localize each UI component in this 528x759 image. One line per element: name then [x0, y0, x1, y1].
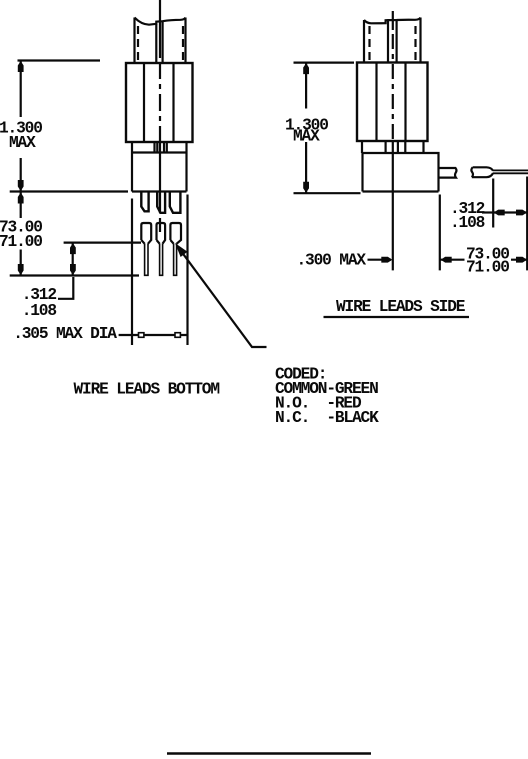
wire tab exit: [439, 168, 457, 178]
right view centerline: [392, 11, 394, 30]
wire lead 3 bare wire: [174, 244, 177, 275]
arrow up 73.00 top: [18, 193, 24, 204]
bottom border line: [167, 752, 371, 754]
dimension line .312 right: [493, 211, 527, 213]
svg-text:MAX: MAX: [293, 128, 320, 146]
wire lead 2 bare wire: [160, 244, 163, 275]
extension line top (1.300): [18, 59, 101, 61]
wire break segment: [471, 167, 493, 177]
dimension line 73.00 right: [440, 259, 527, 261]
wire lead 2 insulation: [157, 223, 166, 244]
extension line bottom right (1.300): [294, 192, 361, 194]
right hex facet lines: [377, 63, 406, 141]
extension line block edge: [439, 195, 441, 271]
dia dim tick right: [175, 333, 180, 338]
leader .312 text: [58, 277, 73, 299]
arrow left 73.00 right: [441, 257, 452, 263]
terminal hook 1: [141, 192, 148, 211]
dimension line .305 dia: [119, 334, 188, 336]
wire lead 3 insulation: [170, 223, 181, 244]
right housing neck: [362, 141, 424, 153]
extension line mid (1.300 bottom / 73.00 top): [10, 190, 128, 192]
extension line left (dia): [131, 199, 133, 346]
extension line right (dia): [186, 195, 188, 346]
arrow right .312 right: [516, 210, 527, 216]
left housing small terminals: [155, 142, 167, 153]
arrow up 1.300 top: [18, 61, 24, 72]
leader .312 right text: [482, 211, 493, 213]
right lower housing block: [363, 153, 439, 192]
dia dim tick left: [139, 333, 144, 338]
svg-text:N.C. -BLACK: N.C. -BLACK: [275, 409, 379, 427]
terminal hook 2: [157, 192, 165, 213]
arrow right .300 max: [381, 257, 392, 263]
wire lead 1 bare wire: [145, 244, 148, 275]
dimension line 73.00: [20, 192, 22, 276]
arrow up 1.300 right top: [303, 63, 309, 74]
svg-text:.108: .108: [22, 302, 57, 320]
left cap inner face lines: [156, 21, 162, 62]
arrow down 1.300 right bottom: [303, 182, 309, 193]
svg-text:71.00: 71.00: [0, 233, 42, 251]
left cap outline: [135, 18, 186, 63]
left lower housing: [132, 142, 187, 192]
extension line wire end: [10, 274, 139, 276]
svg-text:.108: .108: [450, 214, 485, 232]
arrow up .312 top: [70, 243, 76, 254]
extension line strip end: [492, 179, 494, 228]
terminal hook 3: [170, 192, 181, 213]
left hex facet lines: [144, 63, 174, 142]
left hex body: [126, 63, 193, 142]
arrow right 73.00 right: [516, 257, 527, 263]
wire lead 1 insulation: [141, 223, 151, 244]
wire lead line: [493, 170, 528, 173]
svg-text:WIRE LEADS BOTTOM: WIRE LEADS BOTTOM: [74, 381, 220, 399]
arrow left .312 right: [494, 210, 505, 216]
right housing small terminals: [386, 141, 406, 153]
svg-text:71.00: 71.00: [466, 259, 509, 277]
dimension line 1.300 right: [305, 63, 307, 194]
right cap hidden lines: [370, 26, 416, 61]
arrow down .312 bottom: [70, 264, 76, 275]
svg-text:WIRE LEADS SIDE: WIRE LEADS SIDE: [336, 298, 466, 316]
svg-text:.300 MAX: .300 MAX: [297, 251, 367, 269]
svg-text:.305 MAX DIA: .305 MAX DIA: [13, 325, 117, 343]
left view centerline: [159, 0, 161, 58]
arrow down 1.300 bottom: [18, 180, 24, 191]
right cap inner face lines: [388, 20, 397, 63]
extension line wire tip: [526, 177, 528, 271]
dimension line .312: [72, 243, 74, 276]
extension line insulation end: [64, 242, 141, 244]
right cap outline: [364, 18, 421, 63]
leader arrowhead: [175, 243, 188, 257]
arrow down 73.00 bottom: [18, 264, 24, 275]
right hex body: [357, 63, 428, 142]
leader to coded note: [180, 249, 267, 347]
svg-text:MAX: MAX: [9, 134, 36, 152]
dimension line 1.300: [20, 61, 22, 192]
extension line top right (1.300): [294, 61, 355, 63]
dimension line .300 max: [368, 259, 392, 261]
underline wire leads side: [324, 316, 470, 318]
left cap hidden lines: [138, 26, 183, 61]
